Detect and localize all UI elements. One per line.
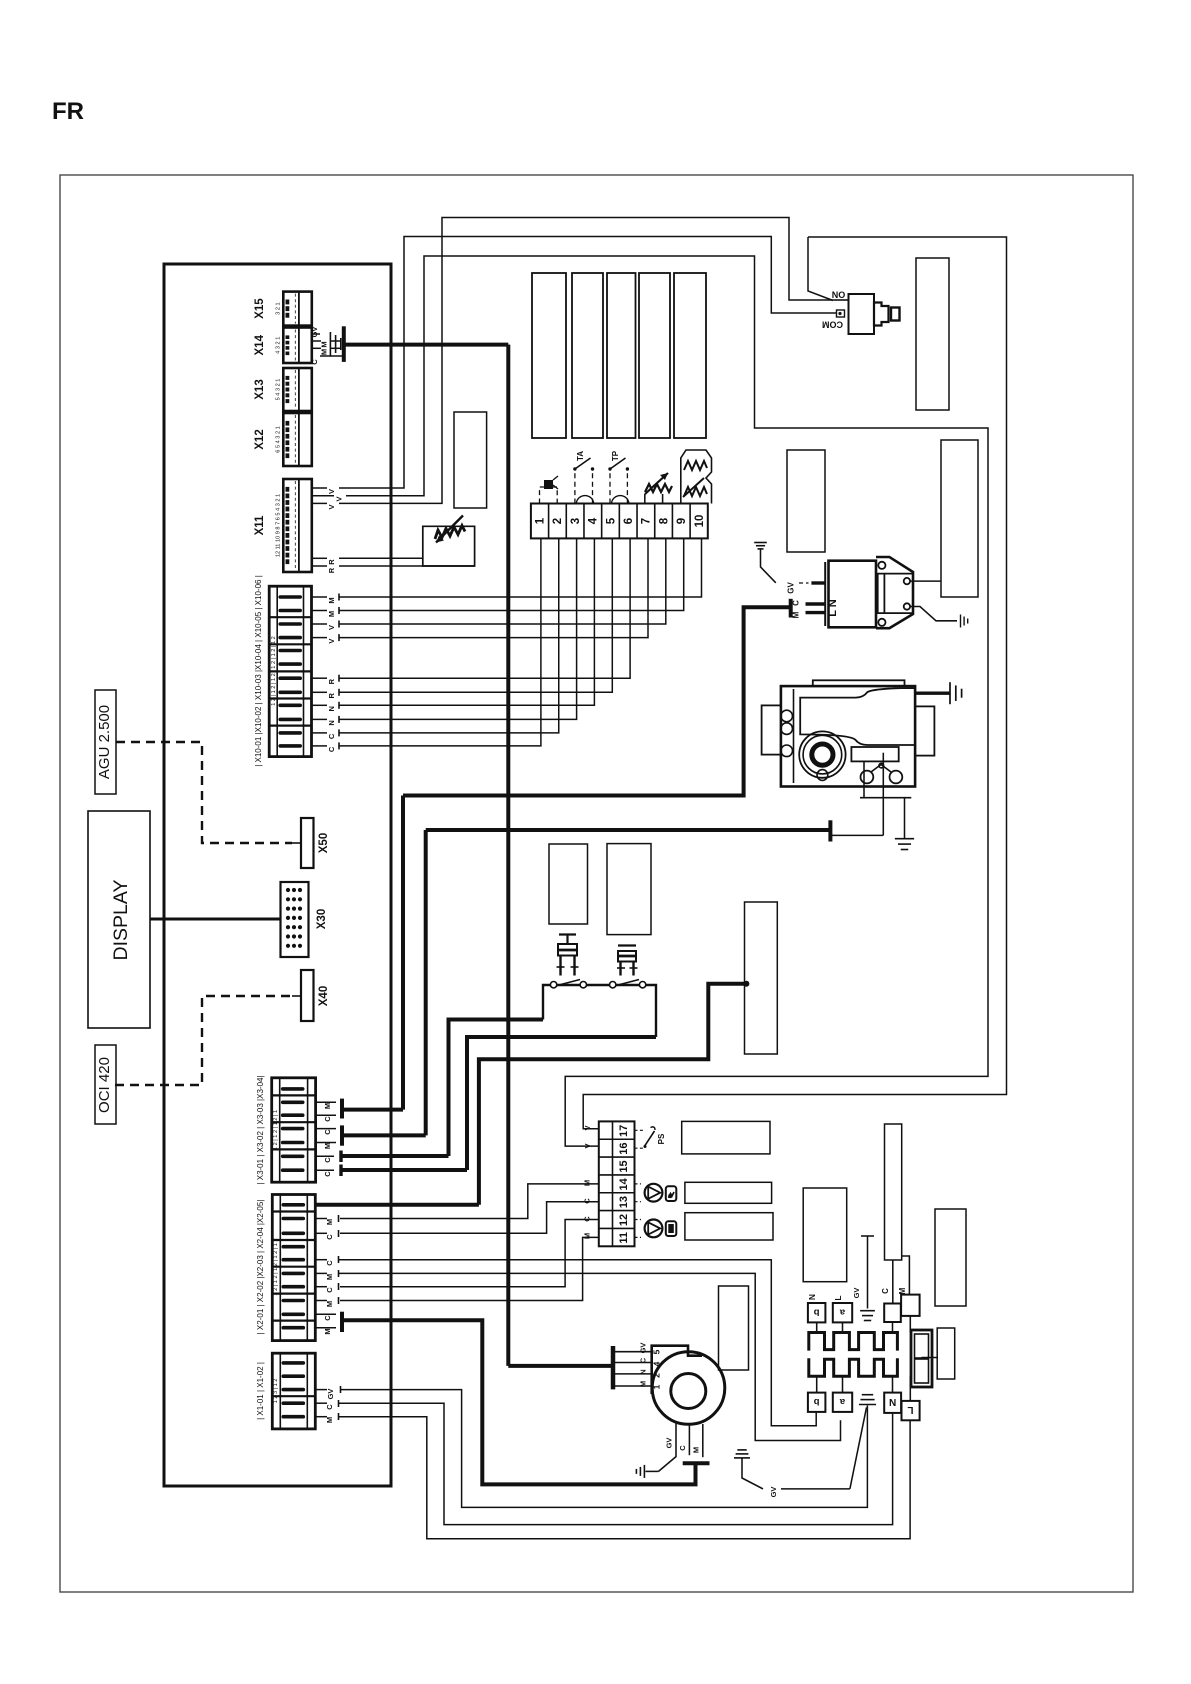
ground right of ignition [960,615,962,628]
svg-text:12: 12 [618,1214,630,1226]
svg-text:GV: GV [665,1438,674,1449]
svg-text:L: L [833,1295,843,1300]
svg-text:5: 5 [605,517,617,524]
component rectangle top-right [916,258,949,410]
ground above transformer with GV [867,1236,869,1309]
svg-text:M: M [327,611,336,617]
svg-text:V: V [327,625,336,630]
rect above fan right [719,1286,749,1370]
fan bottom wires GV C M [659,1423,677,1471]
svg-text:C: C [323,1116,332,1122]
X3 pair2 terminal bar [316,1128,336,1130]
svg-text:8: 8 [658,517,670,524]
thick wire X3 pair2 riser [424,830,428,1135]
svg-text:C: C [325,1260,334,1266]
wire X11 pin11 R to potentiometer [312,557,327,559]
dashed wire AGU to X50 [116,742,292,843]
svg-text:16: 16 [618,1143,630,1155]
svg-text:5 4 3 2 1: 5 4 3 2 1 [276,379,282,401]
svg-text:GV: GV [310,327,319,338]
svg-text:M: M [583,1180,592,1186]
svg-text:4: 4 [588,517,600,524]
svg-text:V: V [583,1125,592,1130]
svg-text:FR: FR [52,98,84,125]
valve symbol V1 above bank [559,933,576,935]
transformer terminal M [901,1295,920,1316]
component rectangle T3 [607,273,636,438]
svg-text:N: N [327,706,336,711]
svg-text:C: C [639,1357,648,1363]
svg-text:9: 9 [676,518,688,524]
outdoor sensor above cells 9-10 [681,450,712,504]
svg-text:TA: TA [576,451,585,461]
svg-text:C: C [323,1315,332,1321]
gas valve dual coil symbol [861,771,874,784]
transformer side connector [911,1330,932,1387]
gas valve pump head circles [799,731,845,777]
connector X40 [301,970,314,1021]
pump P2 symbol [635,1219,642,1221]
svg-text:C: C [310,359,319,365]
wire X10 row V to strip cell [312,623,328,625]
svg-text:M: M [323,1103,332,1109]
ground below transformer [862,1394,873,1396]
component rectangle mid-right A [787,450,825,552]
svg-text:| X2-01 | X2-02 |X2-03 | X2-04: | X2-01 | X2-02 |X2-03 | X2-04 |X2-05| [256,1200,265,1335]
X1 GV wire to transformer ground [315,1389,327,1391]
svg-text:COM: COM [822,319,843,329]
fan terminal comb bar [611,1346,616,1389]
wire X10 row R to strip cell [312,691,328,693]
svg-text:N: N [889,1396,896,1407]
transformer rectangle right [935,1209,966,1306]
svg-text:1 2 | 1 2 | 1 2 | 1 2 | 1: 1 2 | 1 2 | 1 2 | 1 2 | 1 2 | 1 2 [271,636,277,705]
svg-text:C: C [325,1234,334,1240]
transformer core upper comb [809,1333,898,1351]
wire GV to transformer ground diagonal [781,1488,850,1490]
thick wire X3 pair2 to gas valve [426,828,831,832]
wire ignition screw to ground [910,607,957,621]
transformer upper terminal a [833,1303,852,1322]
svg-text:M: M [320,349,329,355]
X2 pin8 M wire [315,1300,327,1302]
svg-text:C: C [327,733,336,739]
svg-text:C: C [678,1445,687,1451]
svg-text:M: M [792,611,801,618]
svg-text:L N: L N [827,599,839,617]
wire ON loop to terminal 17 [583,237,1006,1129]
fan scroll casing [652,1346,702,1394]
svg-text:ON: ON [832,289,846,299]
connector X13 [283,368,312,411]
svg-text:14: 14 [618,1177,630,1190]
wire X10 row M to strip cell [312,596,328,598]
wire X10 row R to strip cell [312,677,328,679]
svg-text:12 11 10 9 8 7 6 5 4 3 2 1: 12 11 10 9 8 7 6 5 4 3 2 1 [276,494,282,557]
ground near fan bottom right [737,1449,746,1451]
component rectangle above valve V1 [549,844,588,924]
component rectangle above valve V2 [607,844,651,935]
pump P1 symbol [635,1183,642,1185]
ground right of gas valve [949,682,951,704]
svg-text:R: R [327,559,336,565]
terminal strip 1-10 [531,504,708,539]
connector X14 [283,328,312,364]
wire gas valve to thick feed [831,834,883,836]
OCI 420 box [95,1045,116,1124]
wire X10 row C to strip cell [312,745,328,747]
svg-text:17: 17 [618,1125,630,1137]
svg-text:| X10-01 |X10-02 | X10-03 |X10: | X10-01 |X10-02 | X10-03 |X10-04 | X10-… [254,575,263,767]
pressure switch COM terminal [837,310,845,317]
thick bus wire from X14 bar to vertical bus [344,343,509,347]
svg-text:X15: X15 [254,298,266,319]
outer border frame [60,175,1133,1592]
ignition GV pin [811,581,824,584]
svg-text:M: M [583,1233,592,1239]
svg-text:6 5 4 3 2 1: 6 5 4 3 2 1 [276,426,282,452]
wire terminal 12 C from X2 [340,1220,599,1287]
component rectangle T2 [572,273,603,438]
component rectangle T5 [674,273,706,438]
svg-text:a: a [839,1396,845,1407]
svg-text:PS: PS [657,1133,666,1144]
transformer lower terminal b [808,1393,826,1412]
wire X11 pin2 V to big loop to terminal 16 [312,495,334,497]
connector X50 [301,818,314,868]
wire bank to thick riser x708 [479,984,747,1205]
svg-text:OCI 420: OCI 420 [96,1057,113,1113]
svg-text:M: M [325,1274,334,1280]
thick wire X2 bottom pair to fan [342,1320,696,1484]
DISPLAY unit [88,811,150,1028]
connector X30 [281,882,309,957]
X2 pin6 M wire to transformer a [315,1272,327,1274]
svg-text:3 2 1: 3 2 1 [276,302,282,314]
svg-text:V: V [327,639,336,644]
wire terminal 13 C from X2 [340,1202,599,1234]
svg-text:M: M [325,1417,334,1423]
svg-text:X13: X13 [254,379,266,399]
svg-text:M: M [692,1447,701,1453]
X3 pair1 terminal bar and labels [316,1101,336,1103]
svg-text:10: 10 [694,515,706,528]
gas valve inner solenoid outline [800,688,915,745]
terminal block 11-17 [599,1121,635,1246]
svg-text:M: M [639,1381,648,1387]
transformer terminal N [884,1393,901,1413]
transformer core lower comb [809,1358,898,1376]
wire X10 row M to strip cell [312,610,328,612]
ignition unit body [829,561,877,628]
TA switch above cells 3-4 [574,470,576,504]
svg-text:GV: GV [326,1389,335,1400]
component rectangle right of X12 [454,412,487,508]
svg-text:C: C [583,1198,592,1204]
room stat symbol above cells 1-2 [540,487,546,504]
svg-text:1: 1 [535,517,547,524]
svg-text:DISPLAY: DISPLAY [110,880,132,961]
connector X3 block [272,1078,316,1182]
controller board box [164,264,391,1486]
dashed wire OCI to X40 [115,996,292,1085]
ignition M C pins [806,602,825,605]
svg-text:AGU 2.500: AGU 2.500 [96,705,113,779]
svg-text:3: 3 [570,518,582,524]
valve symbol V2 above bank [618,944,636,946]
svg-text:b: b [814,1396,820,1407]
bank switch levers [557,980,580,986]
gas valve coil bracket [851,747,898,761]
svg-text:C: C [323,1171,332,1177]
svg-text:1 2 3 | 1 2: 1 2 3 | 1 2 [273,1379,279,1404]
svg-text:R: R [327,693,336,699]
svg-text:R: R [327,678,336,684]
svg-text:C: C [323,1157,332,1163]
terminal bar X14 [342,326,346,362]
svg-text:GV: GV [769,1487,778,1498]
svg-text:2: 2 [552,518,564,524]
svg-text:| X1-01 | X1-02 |: | X1-01 | X1-02 | [256,1362,265,1420]
thick wire X3 pin5 riser to pump bank [449,1020,544,1157]
rect left above transformer [745,902,778,1054]
component rectangle right of terminal 17 [682,1121,770,1154]
transformer upper terminal b [808,1303,826,1322]
component rectangle right of pump P1 [685,1182,772,1203]
svg-text:C: C [327,746,336,752]
X2 pin9+10 terminal bar [315,1313,336,1315]
svg-text:b: b [814,1306,820,1317]
X3 pin C thick wire to bank [316,1155,334,1157]
terminal bar at ignition M C [789,599,793,618]
svg-text:1 2 | 1 2 | 1 2 | 1: 1 2 | 1 2 | 1 2 | 1 [273,1110,279,1150]
svg-text:TP: TP [611,450,620,461]
ground at fan GV [635,1469,637,1474]
svg-text:C: C [583,1216,592,1222]
svg-text:C: C [325,1404,334,1410]
ground below gas valve [904,798,906,839]
svg-text:X30: X30 [316,909,328,929]
svg-text:M: M [325,1219,334,1225]
connector X2 block [272,1195,315,1341]
svg-text:M: M [325,1301,334,1307]
wire X10 row C to strip cell [312,732,328,734]
transformer side small rect [937,1328,955,1379]
svg-text:15: 15 [618,1160,630,1172]
pressure switch ON terminal [835,299,849,301]
wire X10 row N to strip cell [312,718,328,720]
svg-text:6: 6 [623,518,635,524]
ground above ignition [754,542,767,544]
X2 pin1 thick wire to relay rect [315,1203,479,1207]
wire X11 pin12 R to potentiometer bottom [312,565,327,567]
thick bus to fan terminal comb [508,1364,612,1368]
connector X11 [283,479,312,572]
transformer lower terminal a [833,1393,852,1412]
fan comb wires 5 4 2 1 [615,1351,652,1353]
wire X10 row V to strip cell [312,637,328,639]
sensor zigzag above cells 7-8 [644,494,646,504]
pump switch bank outline [543,985,656,1037]
svg-text:C: C [792,600,801,606]
svg-text:M: M [898,1287,907,1294]
component rectangle T1 [532,273,566,438]
svg-text:V: V [327,504,336,509]
X2 pin5 C wire to transformer b [315,1259,327,1261]
svg-text:M: M [320,341,329,347]
connector X15 [283,292,312,326]
wire terminal 11 M from X2 [340,1237,599,1300]
transformer terminal C [884,1304,901,1323]
svg-text:X50: X50 [318,833,330,853]
svg-text:V: V [583,1143,592,1148]
X2 pin2 M wire [315,1218,327,1220]
svg-text:V: V [335,496,344,501]
svg-text:13: 13 [618,1196,630,1208]
component rectangle right of pump P2 [685,1213,773,1240]
transformer rectangle left [803,1188,847,1282]
svg-text:a: a [839,1306,845,1317]
ignition unit right housing [876,557,913,628]
svg-text:1 2 | 1 2 | 1 2 | 1 2 | 1: 1 2 | 1 2 | 1 2 | 1 2 | 1 2 [273,1238,279,1295]
svg-text:C: C [881,1288,890,1294]
fan inner circle [671,1374,706,1409]
svg-text:11: 11 [618,1232,630,1244]
wire terminal 14 M from X2 [340,1184,599,1219]
transformer narrow rectangle [885,1124,902,1260]
X14 pin stubs [312,333,320,335]
thick wire gas valve to ground [914,692,950,695]
X1 M wire to transformer L [315,1416,327,1418]
wire DISPLAY to X30 [150,918,281,921]
component rectangle mid-right B [941,440,978,597]
gas valve left port circles [781,710,793,722]
PS switch at terminals 16-17 [635,1129,644,1131]
svg-text:X14: X14 [254,334,266,355]
connector X1 block [272,1353,315,1429]
svg-text:X11: X11 [254,515,266,535]
ground at X14 GV pin [329,332,331,356]
potentiometer box [423,526,475,566]
potentiometer zigzag symbol [435,526,465,540]
svg-text:R: R [327,567,336,573]
main thick bus vertical x=508 [506,345,510,1366]
svg-text:N: N [639,1369,648,1374]
svg-text:GV: GV [639,1343,648,1354]
svg-text:M: M [323,1143,332,1149]
gas valve body [781,686,915,786]
air pressure switch body [849,294,875,334]
svg-text:N: N [327,720,336,725]
svg-text:| X3-01 | X3-02 | X3-03 |X3-04: | X3-01 | X3-02 | X3-03 |X3-04| [256,1075,265,1184]
component rectangle T4 [639,273,670,438]
svg-text:C: C [323,1129,332,1135]
X2 pin3 C wire [315,1232,327,1234]
X2 pin7 C wire [315,1286,327,1288]
fan terminal T bar [683,1461,710,1465]
transformer terminal L [902,1401,920,1420]
thick wire X3 pin6 riser to pump bank bottom [467,1037,656,1170]
svg-text:GV: GV [787,582,796,594]
wire X11 pin3 V to pressure switch ON [312,502,327,504]
X3 pin C thick wire to bank bottom [316,1169,334,1171]
AGU 2.500 box [95,690,116,794]
connector X12 [283,413,312,466]
connector X10 block [269,586,311,756]
svg-text:V: V [327,489,336,494]
svg-text:M: M [327,597,336,603]
wire X11 pin1 V to pressure switch COM loop [312,487,327,489]
wire ignition screw to rect B [910,580,941,582]
TP switch above cells 5-6 [609,470,611,504]
svg-text:X40: X40 [318,986,330,1006]
svg-text:L: L [907,1404,913,1415]
svg-text:M: M [323,1328,332,1334]
bank terminal circles [550,982,556,988]
thick wire X3 pair1 riser [401,796,405,1110]
terminal bar thick feed gas valve [828,820,832,841]
svg-text:4 3 2 1: 4 3 2 1 [276,337,282,354]
svg-text:7: 7 [641,518,653,524]
thick wire X3 pair1 to ignition [403,607,791,795]
gas valve bottom terminal bar [860,797,911,799]
svg-text:X12: X12 [254,429,266,449]
X1 C wire to transformer N [315,1402,327,1404]
svg-text:C: C [325,1287,334,1293]
wire X10 row N to strip cell [312,704,328,706]
svg-text:N: N [807,1294,817,1300]
svg-text:GV: GV [852,1288,861,1299]
